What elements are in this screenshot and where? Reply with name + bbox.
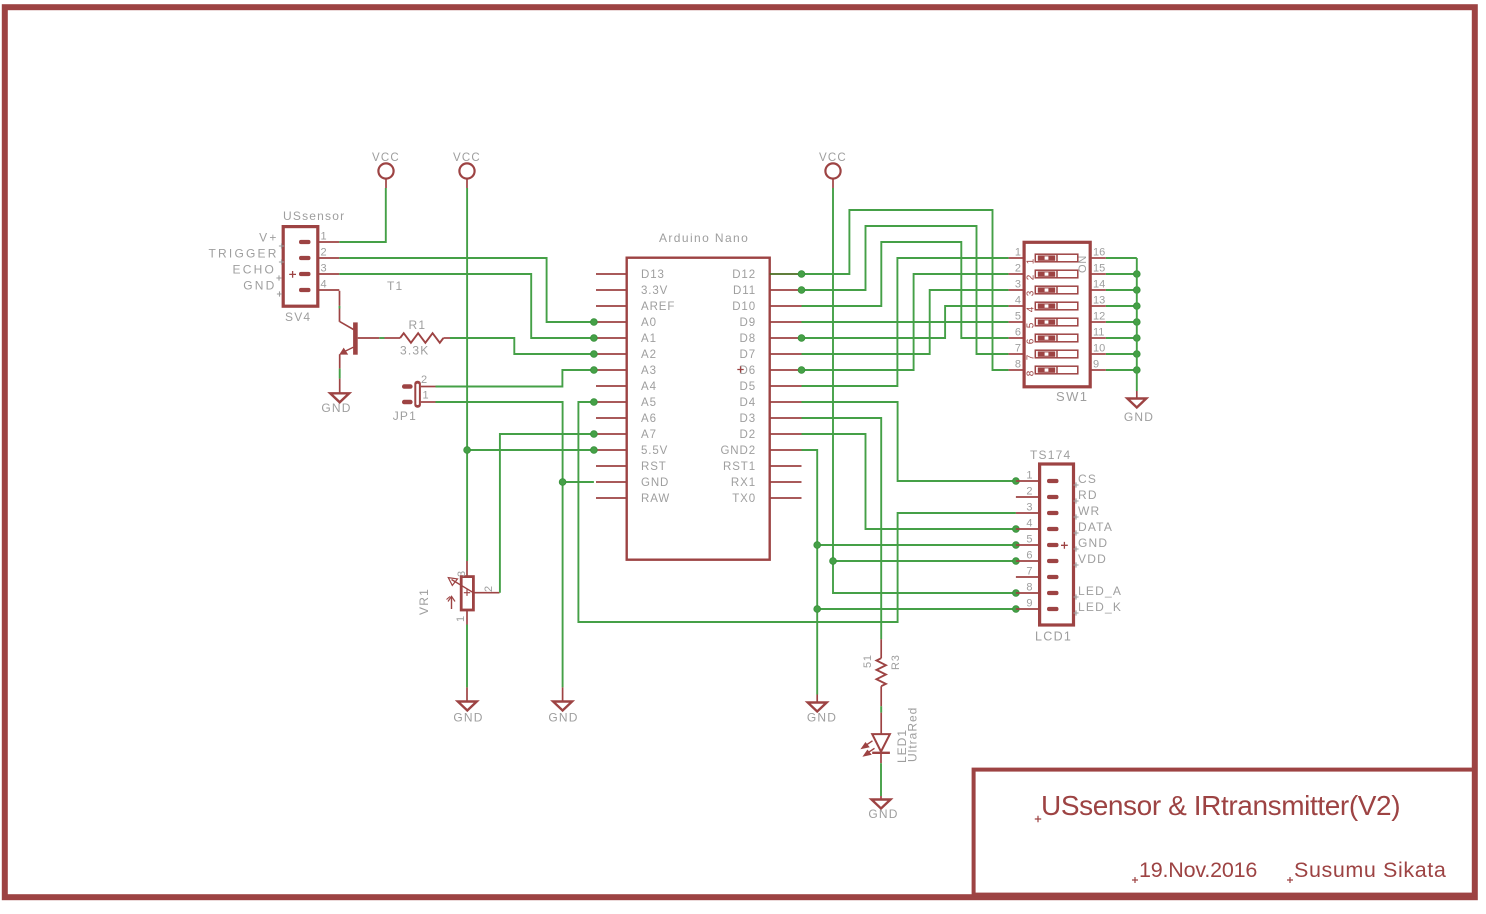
svg-text:VCC: VCC: [453, 152, 481, 164]
LCD1 pad pin 1: [1047, 479, 1059, 483]
svg-text:A2: A2: [641, 349, 657, 361]
junction GND2 tee row 545: [814, 542, 821, 549]
svg-text:3.3V: 3.3V: [641, 285, 668, 297]
resistor R1 zigzag: [400, 333, 443, 343]
svg-text:5: 5: [1015, 311, 1021, 323]
wire net A3 to JP1.2: [436, 370, 594, 387]
VR1 adjust arrow: [451, 597, 453, 609]
wire net D2 to LCD1 pin 4 DATA: [802, 434, 1016, 529]
svg-text:D2: D2: [739, 429, 756, 441]
ground symbol under T1: [330, 393, 349, 402]
junction VCC P3 tee row 561: [830, 558, 837, 565]
SW1 right pin 12 stub: [1090, 321, 1106, 323]
svg-text:5: 5: [1026, 322, 1037, 328]
svg-text:2: 2: [1026, 486, 1032, 498]
Arduino pin 5.5V stub: [596, 449, 627, 451]
svg-text:A4: A4: [641, 381, 657, 393]
SW1 switch element 7: [1035, 350, 1078, 358]
svg-text:5: 5: [1026, 534, 1032, 546]
svg-text:D13: D13: [641, 269, 665, 281]
wire T1 emitter to GND: [339, 354, 341, 368]
resistor R3 leads: [880, 639, 882, 658]
LCD1 pin 1 stub: [1016, 480, 1040, 482]
svg-text:A6: A6: [641, 413, 657, 425]
junction at LCD pin 8: [1013, 590, 1020, 597]
svg-text:19.Nov.2016: 19.Nov.2016: [1139, 858, 1257, 882]
ground symbol for GND2: [808, 703, 827, 712]
SW1 left pin 8 stub: [1009, 369, 1025, 371]
wire SW1 pin 16 to GND bus: [1106, 257, 1137, 259]
Arduino pin D3 stub: [770, 417, 802, 419]
Arduino pin RST1 stub: [770, 465, 802, 467]
wire R3 to LED1: [880, 686, 882, 706]
Arduino pin A6 stub: [596, 417, 627, 419]
Arduino pin D8 stub: [770, 337, 802, 339]
svg-text:RD: RD: [1078, 488, 1098, 502]
svg-text:12: 12: [1093, 311, 1105, 323]
svg-text:USsensor: USsensor: [283, 209, 345, 223]
JP1 pad pin 2: [402, 384, 413, 389]
svg-text:10: 10: [1093, 343, 1105, 355]
junction GND tee: [559, 479, 566, 486]
svg-text:RST1: RST1: [723, 461, 756, 473]
SV4 pad pin 1: [299, 240, 311, 244]
svg-text:GND: GND: [321, 401, 351, 415]
svg-text:RAW: RAW: [641, 493, 670, 505]
svg-text:7: 7: [1015, 343, 1021, 355]
svg-text:GND: GND: [1124, 410, 1154, 424]
svg-text:VCC: VCC: [372, 152, 400, 164]
svg-text:GND: GND: [243, 279, 276, 293]
svg-text:A5: A5: [641, 397, 657, 409]
LCD1 pin 3 stub: [1016, 512, 1040, 514]
svg-text:8: 8: [1026, 582, 1032, 594]
svg-text:ECHO: ECHO: [233, 263, 276, 277]
wire SW1 pin 14 to GND bus: [1106, 289, 1137, 291]
junction at LCD pin 4: [1013, 526, 1020, 533]
SW1 left pin 7 stub: [1009, 353, 1025, 355]
SW1 right pin 14 stub: [1090, 289, 1106, 291]
jumper JP1 body: [414, 381, 421, 408]
svg-text:7: 7: [1026, 566, 1032, 578]
Arduino pin AREF stub: [596, 305, 627, 307]
junction at D12 pin: [798, 271, 805, 278]
svg-text:RX1: RX1: [731, 477, 756, 489]
junction GND bus row 322: [1133, 319, 1140, 326]
svg-text:V+: V+: [259, 231, 278, 245]
junction GND bus row 290: [1133, 287, 1140, 294]
junction at A3 pin: [591, 367, 598, 374]
VR1 pin 3 stub: [466, 561, 468, 577]
Arduino pin D12 stub: [770, 273, 802, 275]
svg-text:GND: GND: [548, 711, 578, 725]
transistor T1 emitter diagonal with arrow: [344, 347, 354, 352]
svg-text:4: 4: [1015, 295, 1021, 307]
svg-text:TRIGGER: TRIGGER: [209, 247, 279, 261]
junction at D8 pin: [798, 335, 805, 342]
SV4 pad pin 2: [299, 256, 311, 260]
svg-text:CS: CS: [1078, 472, 1097, 486]
SW1 right pin 15 stub: [1090, 273, 1106, 275]
svg-text:D6: D6: [739, 365, 756, 377]
svg-text:ON: ON: [1077, 255, 1089, 273]
Arduino pin TX0 stub: [770, 497, 802, 499]
svg-text:GND: GND: [453, 711, 483, 725]
svg-text:2: 2: [421, 374, 427, 386]
junction at LCD pin 9: [1013, 606, 1020, 613]
wire net TRIGGER : SV4.2 to Arduino A0: [339, 258, 594, 322]
SV4 polarity mark: [289, 271, 296, 278]
svg-text:GND: GND: [807, 711, 837, 725]
LCD1 pad pin 3: [1047, 511, 1059, 515]
svg-text:A7: A7: [641, 429, 657, 441]
svg-text:R3: R3: [890, 654, 902, 670]
wire net GND2 to ground / LCD pins 5,9: [802, 450, 818, 695]
Arduino pin RX1 stub: [770, 481, 802, 483]
svg-text:8: 8: [1026, 370, 1037, 376]
SW1 left pin 5 stub: [1009, 321, 1025, 323]
junction at A7 pin: [591, 431, 598, 438]
SW1 switch element 5: [1035, 318, 1078, 326]
Arduino pin GND stub: [596, 481, 627, 483]
title block box: [974, 770, 1475, 895]
junction at D11 pin: [798, 287, 805, 294]
svg-text:GND: GND: [868, 807, 898, 821]
Arduino pin A2 stub: [596, 353, 627, 355]
svg-text:D3: D3: [739, 413, 756, 425]
SW1 left pin 1 stub: [1009, 257, 1025, 259]
svg-text:3: 3: [1026, 290, 1037, 296]
svg-text:VDD: VDD: [1078, 552, 1107, 566]
svg-text:7: 7: [1026, 354, 1037, 360]
LCD1 pin 7 stub: [1016, 576, 1040, 578]
wire VR1.1 to GND: [466, 625, 468, 688]
svg-text:1: 1: [1015, 247, 1021, 259]
wire net D10 to SW1 pin 6: [802, 242, 1009, 338]
junction GND bus row 370: [1133, 367, 1140, 374]
svg-text:A0: A0: [641, 317, 657, 329]
transistor T1 base bar: [353, 322, 358, 354]
SW1 right pin 16 stub: [1090, 257, 1106, 259]
JP1 pad pin 1: [402, 400, 413, 405]
Arduino pin A1 stub: [596, 337, 627, 339]
svg-text:14: 14: [1093, 279, 1105, 291]
svg-text:GND: GND: [641, 477, 669, 489]
svg-text:A3: A3: [641, 365, 657, 377]
svg-text:D9: D9: [739, 317, 756, 329]
Arduino pin A5 stub: [596, 401, 627, 403]
Arduino pin D10 stub: [770, 305, 802, 307]
svg-text:D8: D8: [739, 333, 756, 345]
svg-text:Susumu Sikata: Susumu Sikata: [1294, 858, 1446, 882]
Arduino pin RST stub: [596, 465, 627, 467]
LCD1 polarity mark: [1061, 542, 1068, 549]
LCD1 pin 9 stub: [1016, 608, 1040, 610]
transistor T1 collector diagonal: [340, 322, 354, 330]
svg-text:3: 3: [1015, 279, 1021, 291]
SW1 left pin 6 stub: [1009, 337, 1025, 339]
LCD1 pad pin 4: [1047, 527, 1059, 531]
Arduino pin D2 stub: [770, 433, 802, 435]
wire SW1 pin 9 to GND bus: [1106, 369, 1137, 371]
wire net D3 to R3 / LED: [802, 418, 882, 639]
SW1 right pin 11 stub: [1090, 337, 1106, 339]
svg-text:TS174: TS174: [1030, 448, 1071, 462]
svg-text:4: 4: [321, 279, 327, 291]
svg-text:1: 1: [321, 231, 327, 243]
wire net A7 to VR1.2: [500, 434, 594, 593]
wire net R1 to Arduino A2: [443, 337, 450, 339]
svg-text:D5: D5: [739, 381, 756, 393]
Arduino pin D9 stub: [770, 321, 802, 323]
SW1 left pin 2 stub: [1009, 273, 1025, 275]
module Arduino Nano body: [627, 258, 770, 560]
LCD1 pad pin 9: [1047, 607, 1059, 611]
potentiometer VR1 body: [461, 577, 473, 610]
wire SW1 pin 15 to GND bus: [1106, 273, 1137, 275]
diode LED1 triangle: [872, 734, 890, 752]
Arduino pin A0 stub: [596, 321, 627, 323]
LED1 emission arrows: [862, 741, 875, 756]
svg-text:D11: D11: [733, 285, 756, 297]
wire net A5 to LCD1 WR: [578, 402, 1016, 622]
svg-text:USsensor & IRtransmitter(V2): USsensor & IRtransmitter(V2): [1041, 790, 1400, 821]
SW1 switch element 3: [1035, 286, 1078, 294]
svg-text:9: 9: [1026, 598, 1032, 610]
svg-text:RST: RST: [641, 461, 667, 473]
power symbol VCC P1: [378, 163, 393, 178]
Arduino pin D11 stub: [770, 289, 802, 291]
connector LCD1 (TS174) body: [1040, 464, 1074, 625]
wire net VCC P3 to LCD pins 6,8: [833, 188, 1016, 593]
VR1 pin 2 stub: [473, 592, 499, 594]
SW1 right pin 10 stub: [1090, 353, 1106, 355]
SW1 right pin 9 stub: [1090, 369, 1106, 371]
SW1 switch element 8: [1035, 366, 1078, 374]
svg-text:51: 51: [862, 654, 874, 668]
LCD1 pad pin 7: [1047, 575, 1059, 579]
wire net D12 to SW1 pin 8: [802, 210, 1009, 370]
SV4 pin 3 stub: [318, 273, 340, 275]
svg-text:GND: GND: [1078, 536, 1108, 550]
svg-text:11: 11: [1093, 327, 1104, 339]
wire SW1 pin 10 to GND bus: [1106, 353, 1137, 355]
Arduino pin D6 stub: [770, 369, 802, 371]
svg-text:D7: D7: [739, 349, 756, 361]
wire net D8 to SW1 pin 4: [802, 306, 1009, 338]
wire net VCC P2 vertical: [466, 188, 468, 561]
wire net D6 to SW1 pin 2: [802, 274, 1009, 370]
svg-text:LED_A: LED_A: [1078, 584, 1122, 598]
svg-text:3: 3: [1026, 502, 1032, 514]
Arduino pin D13 stub: [596, 273, 627, 275]
svg-text:TX0: TX0: [732, 493, 756, 505]
wire SW1 pin 12 to GND bus: [1106, 321, 1137, 323]
svg-text:1: 1: [1026, 470, 1032, 482]
JP1 pin 1 stub: [421, 401, 436, 403]
svg-text:GND2: GND2: [720, 445, 756, 457]
SW1 left pin 3 stub: [1009, 289, 1025, 291]
svg-text:15: 15: [1093, 263, 1105, 275]
VR1 pin 1 stub: [466, 610, 468, 625]
VR1 wiper arrow: [452, 580, 474, 593]
wire T1 base to R1: [358, 337, 380, 339]
LCD1 pin 2 stub: [1016, 496, 1040, 498]
junction at D6 pin: [798, 367, 805, 374]
Arduino pin D5 stub: [770, 385, 802, 387]
ground symbol under Arduino: [553, 702, 572, 711]
power symbol VCC P3: [825, 163, 840, 178]
wire net D7 to SW1 pin 3: [802, 290, 1009, 354]
svg-text:16: 16: [1093, 247, 1105, 259]
wire LED1 to GND: [880, 754, 882, 763]
SW1 switch element 1: [1035, 254, 1078, 262]
svg-text:T1: T1: [387, 279, 403, 293]
SW1 switch element 6: [1035, 334, 1078, 342]
svg-text:D12: D12: [732, 269, 756, 281]
LCD1 pad pin 5: [1047, 543, 1059, 547]
LCD1 pad pin 8: [1047, 591, 1059, 595]
junction GND2 tee row 609: [814, 606, 821, 613]
LCD1 pin 8 stub: [1016, 592, 1040, 594]
SV4 pin 4 stub: [318, 289, 340, 291]
junction GND bus row 354: [1133, 351, 1140, 358]
LCD1 pad pin 2: [1047, 495, 1059, 499]
SW1 right pin 13 stub: [1090, 305, 1106, 307]
svg-text:SW1: SW1: [1056, 389, 1088, 404]
VR1 origin cross: [464, 590, 470, 596]
svg-text:SV4: SV4: [285, 310, 311, 324]
switch SW1 body: [1024, 242, 1090, 386]
power symbol VCC P2: [459, 163, 474, 178]
wire SW1 pin 11 to GND bus: [1106, 337, 1137, 339]
junction at A1 pin: [591, 335, 598, 342]
wire net V+ : SV4.1 to VCC P1: [339, 188, 386, 242]
svg-text:Arduino Nano: Arduino Nano: [659, 231, 749, 245]
svg-text:6: 6: [1026, 550, 1032, 562]
svg-text:LED_K: LED_K: [1078, 600, 1122, 614]
Arduino pin 3.3V stub: [596, 289, 627, 291]
wire net D4 to LCD1 pin 1 CS: [802, 402, 1016, 481]
svg-text:UltraRed: UltraRed: [906, 707, 920, 762]
resistor R3 zigzag: [877, 658, 886, 686]
svg-text:2: 2: [1026, 274, 1037, 280]
svg-text:VCC: VCC: [819, 152, 847, 164]
wire net 5.5V to VCC P2: [467, 449, 594, 451]
SW1 switch element 2: [1035, 270, 1078, 278]
svg-text:A1: A1: [641, 333, 657, 345]
ground symbol under LED1: [872, 800, 891, 809]
junction at A5 pin: [591, 399, 598, 406]
SV4 pin 1 stub: [318, 241, 340, 243]
svg-text:VR1: VR1: [417, 588, 431, 615]
SV4 pin 2 stub: [318, 257, 340, 259]
D6 origin cross: [737, 366, 743, 372]
junction GND bus row 274: [1133, 271, 1140, 278]
svg-text:8: 8: [1015, 359, 1021, 371]
svg-text:13: 13: [1093, 295, 1105, 307]
SV4 pad pin 3: [299, 272, 311, 276]
svg-text:LCD1: LCD1: [1035, 630, 1072, 644]
junction at A0 pin: [591, 319, 598, 326]
junction at 5.5V pin: [591, 447, 598, 454]
wire SW1 GND bus vertical: [1136, 258, 1138, 391]
SW1 switch element 4: [1035, 302, 1078, 310]
LCD1 pin 5 stub: [1016, 544, 1040, 546]
svg-text:JP1: JP1: [393, 409, 417, 423]
svg-text:2: 2: [321, 247, 327, 259]
svg-text:2: 2: [1015, 263, 1021, 275]
wire net D11 to SW1 pin 7: [802, 226, 1009, 354]
svg-text:6: 6: [1026, 338, 1037, 344]
svg-text:3.3K: 3.3K: [400, 344, 430, 358]
junction GND bus row 306: [1133, 303, 1140, 310]
wire net D5 to SW1 pin 1: [802, 258, 1009, 386]
wire net GND : JP1.1 / Arduino GND to ground: [436, 402, 563, 687]
LCD1 pin 6 stub: [1016, 560, 1040, 562]
svg-text:2: 2: [483, 586, 495, 592]
SW1 left pin 4 stub: [1009, 305, 1025, 307]
connector SV4 (USsensor) body: [283, 227, 318, 307]
junction at LCD pin 6: [1013, 558, 1020, 565]
junction GND bus row 338: [1133, 335, 1140, 342]
wire net D9 to SW1 pin 5: [802, 321, 1009, 323]
Arduino pin A3 stub: [596, 369, 627, 371]
ground symbol under VR1: [458, 702, 477, 711]
Arduino pin A7 stub: [596, 433, 627, 435]
svg-text:AREF: AREF: [641, 301, 675, 313]
svg-text:1: 1: [1026, 258, 1037, 264]
svg-text:1: 1: [423, 390, 429, 402]
junction at LCD pin 1: [1013, 478, 1020, 485]
junction at LCD pin 5: [1013, 542, 1020, 549]
Arduino pin A4 stub: [596, 385, 627, 387]
wire SV4.4 to T1 collector: [339, 291, 341, 306]
junction at A2 pin: [591, 351, 598, 358]
svg-text:9: 9: [1093, 359, 1099, 371]
wire net ECHO : SV4.3 to Arduino A1: [339, 274, 594, 338]
svg-text:D4: D4: [739, 397, 756, 409]
Arduino pin D4 stub: [770, 401, 802, 403]
svg-text:1: 1: [455, 616, 467, 622]
LCD1 pad pin 6: [1047, 559, 1059, 563]
svg-text:6: 6: [1015, 327, 1021, 339]
SV4 pad pin 4: [299, 288, 311, 292]
Arduino pin D7 stub: [770, 353, 802, 355]
svg-text:DATA: DATA: [1078, 520, 1113, 534]
svg-text:4: 4: [1026, 518, 1032, 530]
svg-text:5.5V: 5.5V: [641, 445, 668, 457]
Arduino pin RAW stub: [596, 497, 627, 499]
svg-text:D10: D10: [732, 301, 756, 313]
svg-text:3: 3: [321, 263, 327, 275]
wire SW1 pin 13 to GND bus: [1106, 305, 1137, 307]
LED1 cathode bar: [872, 752, 890, 754]
junction VCC tee at 5.5V row: [464, 447, 471, 454]
JP1 pin 2 stub: [421, 386, 436, 388]
Arduino pin GND2 stub: [770, 449, 802, 451]
svg-text:R1: R1: [409, 318, 427, 332]
ground symbol under SW1 bus: [1127, 399, 1146, 408]
svg-text:WR: WR: [1078, 504, 1100, 518]
LCD1 pin 4 stub: [1016, 528, 1040, 530]
svg-text:4: 4: [1026, 306, 1037, 312]
